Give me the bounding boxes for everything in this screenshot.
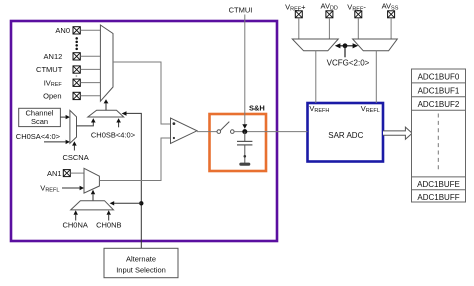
svg-text:CTMUT: CTMUT xyxy=(36,65,63,74)
CSCNA select arrow xyxy=(72,141,77,150)
register ADC1BUF2 label xyxy=(418,100,460,109)
hold capacitor xyxy=(237,132,252,163)
register ADC1BUF1 label xyxy=(418,87,460,96)
register ADC1BUFF label xyxy=(417,193,459,202)
SAR ADC label xyxy=(328,131,363,140)
wire IVREF to mux xyxy=(80,82,100,84)
CH0NB label xyxy=(96,220,121,229)
select arrow from CH0NA/CH0NB mux into CH0N mux xyxy=(91,190,95,201)
pad VREF+ xyxy=(295,11,302,18)
pin VREF+ label xyxy=(285,3,306,13)
ellipsis dots between AN0 and AN12 xyxy=(75,37,78,50)
mux VREFL reference select (right) xyxy=(353,39,398,51)
svg-text:CH0SA<4:0>: CH0SA<4:0> xyxy=(16,132,61,141)
CH0NA label xyxy=(62,220,87,229)
pin AN12 label xyxy=(44,52,63,61)
VREFL label (pin of SAR ADC) xyxy=(361,104,380,114)
sampling switch xyxy=(217,122,234,134)
wire VREFL to SAR ADC xyxy=(375,51,377,103)
svg-text:CSCNA: CSCNA xyxy=(62,153,88,162)
CSCNA label xyxy=(62,153,88,162)
svg-text:AVSS: AVSS xyxy=(382,2,399,12)
svg-text:CTMUI: CTMUI xyxy=(229,5,253,14)
select output arrow of CH0SB mux into big mux xyxy=(104,99,109,110)
wire Open to mux xyxy=(80,95,100,97)
wire switch to SAR ADC input xyxy=(234,131,307,133)
alternate input selection wire (vertical net) xyxy=(122,111,142,248)
svg-text:CH0SB<4:0>: CH0SB<4:0> xyxy=(91,130,136,139)
CH0SA<4:0> label xyxy=(16,132,61,141)
wire AVSS to ref mux xyxy=(390,18,392,40)
svg-text:AN0: AN0 xyxy=(55,26,70,35)
pin AVDD label xyxy=(321,2,338,12)
wire AN12 to mux xyxy=(80,55,100,57)
svg-text:AN1: AN1 xyxy=(47,169,62,178)
pin VREF- label xyxy=(347,3,366,13)
CH0NB stub arrow xyxy=(107,210,111,220)
pad IVREF xyxy=(73,79,80,86)
block arrow SAR ADC to buffers xyxy=(383,127,412,139)
svg-text:VREFL: VREFL xyxy=(40,184,59,194)
wire CTMUT to mux xyxy=(80,68,100,70)
svg-text:AN12: AN12 xyxy=(44,52,63,61)
register buffer table xyxy=(412,69,466,202)
stray dot artifact xyxy=(76,75,78,77)
pad AVDD xyxy=(326,11,333,18)
pin AN0 label xyxy=(55,26,70,35)
module boundary (purple box) xyxy=(11,21,277,241)
svg-text:VREFH: VREFH xyxy=(309,104,329,114)
svg-text:ADC1BUF0: ADC1BUF0 xyxy=(418,73,460,82)
register ADC1BUFE label xyxy=(417,180,460,189)
wire op-amp output to switch xyxy=(197,131,217,133)
svg-text:Alternate: Alternate xyxy=(126,254,156,263)
VCFG<2:0> label xyxy=(327,59,370,68)
Alternate Input Selection box xyxy=(104,248,178,277)
wire AN0 to mux xyxy=(80,29,100,31)
wire VREF+ to ref mux xyxy=(298,18,300,40)
svg-text:ADC1BUFE: ADC1BUFE xyxy=(417,180,460,189)
wire CH0SA to CSCNA mux xyxy=(44,140,70,144)
wire VREF- to ref mux xyxy=(357,18,359,40)
wire CH0N mux output to op-amp - input xyxy=(99,138,170,181)
junction dot on alternate-select net xyxy=(139,201,143,205)
svg-text:VREFL: VREFL xyxy=(361,104,380,114)
mux CSCNA (scan/CH0SA select) xyxy=(70,110,77,143)
svg-text:CH0NB: CH0NB xyxy=(96,220,121,229)
register ADC1BUF0 label xyxy=(418,73,460,82)
svg-text:IVREF: IVREF xyxy=(44,78,63,88)
svg-text:Scan: Scan xyxy=(31,117,48,126)
mux CH0N (AN1/VREFL 2:1) xyxy=(84,168,99,193)
Channel Scan box xyxy=(19,108,61,126)
wire big mux output to op-amp + input xyxy=(113,62,171,124)
pad AN1 xyxy=(63,170,70,177)
wire CSCNA mux output to CH0SB mux xyxy=(77,118,96,126)
pin CTMUT label xyxy=(36,65,63,74)
svg-text:ADC1BUFF: ADC1BUFF xyxy=(417,193,459,202)
mux CH0NA/CH0NB select (bottom flat mux) xyxy=(71,201,114,210)
S&H label xyxy=(249,104,265,113)
VREFH label (pin of SAR ADC) xyxy=(309,104,329,114)
op-amp U1 xyxy=(171,118,198,144)
pad AN0 xyxy=(73,27,80,34)
CH0NA stub arrow xyxy=(74,210,78,220)
pin Open label xyxy=(43,92,61,101)
svg-text:Open: Open xyxy=(43,92,61,101)
wire Channel Scan to CSCNA mux xyxy=(60,115,70,119)
node sampling junction xyxy=(242,129,247,134)
input multiplexer (big mux) xyxy=(100,25,113,101)
CH0SB<4:0> stub arrow xyxy=(116,118,121,127)
wire alternate net to CH0N mux xyxy=(110,201,142,205)
svg-text:AVDD: AVDD xyxy=(321,2,338,12)
pad VREF- xyxy=(355,11,362,18)
wire VREFL to CH0N mux xyxy=(62,186,84,190)
wire VREFH to SAR ADC xyxy=(315,51,317,103)
SAR ADC block (blue box) xyxy=(308,103,384,162)
VCFG select line with arrows xyxy=(335,43,358,57)
wire AN1 to CH0N mux xyxy=(70,172,84,174)
pin AVSS label xyxy=(382,2,399,12)
svg-text:CH0NA: CH0NA xyxy=(62,220,87,229)
dashed continuation line in buffer table xyxy=(437,114,439,173)
pin AN1 label xyxy=(47,169,62,178)
CTMUI label xyxy=(229,5,253,14)
wire CTMUI down to sampling node xyxy=(242,15,247,129)
CH0SB<4:0> label xyxy=(91,130,136,139)
mux CH0SB select (top flat mux) xyxy=(88,110,124,117)
svg-text:SAR ADC: SAR ADC xyxy=(328,131,363,140)
pin IVREF label xyxy=(44,78,63,88)
svg-text:S&H: S&H xyxy=(249,104,265,113)
svg-text:VCFG<2:0>: VCFG<2:0> xyxy=(327,59,370,68)
VREFL label (negative input) xyxy=(40,184,59,194)
pad Open xyxy=(73,92,80,99)
pad AVSS xyxy=(388,11,395,18)
svg-text:Input Selection: Input Selection xyxy=(116,266,166,275)
analog ground symbol xyxy=(239,163,250,166)
svg-text:ADC1BUF1: ADC1BUF1 xyxy=(418,87,460,96)
pad CTMUT xyxy=(73,66,80,73)
pad AN12 xyxy=(73,53,80,60)
svg-text:ADC1BUF2: ADC1BUF2 xyxy=(418,100,460,109)
mux VREFH reference select (left) xyxy=(292,39,338,51)
S&H block box (orange) xyxy=(210,114,267,171)
wire AVDD to ref mux xyxy=(328,18,330,40)
